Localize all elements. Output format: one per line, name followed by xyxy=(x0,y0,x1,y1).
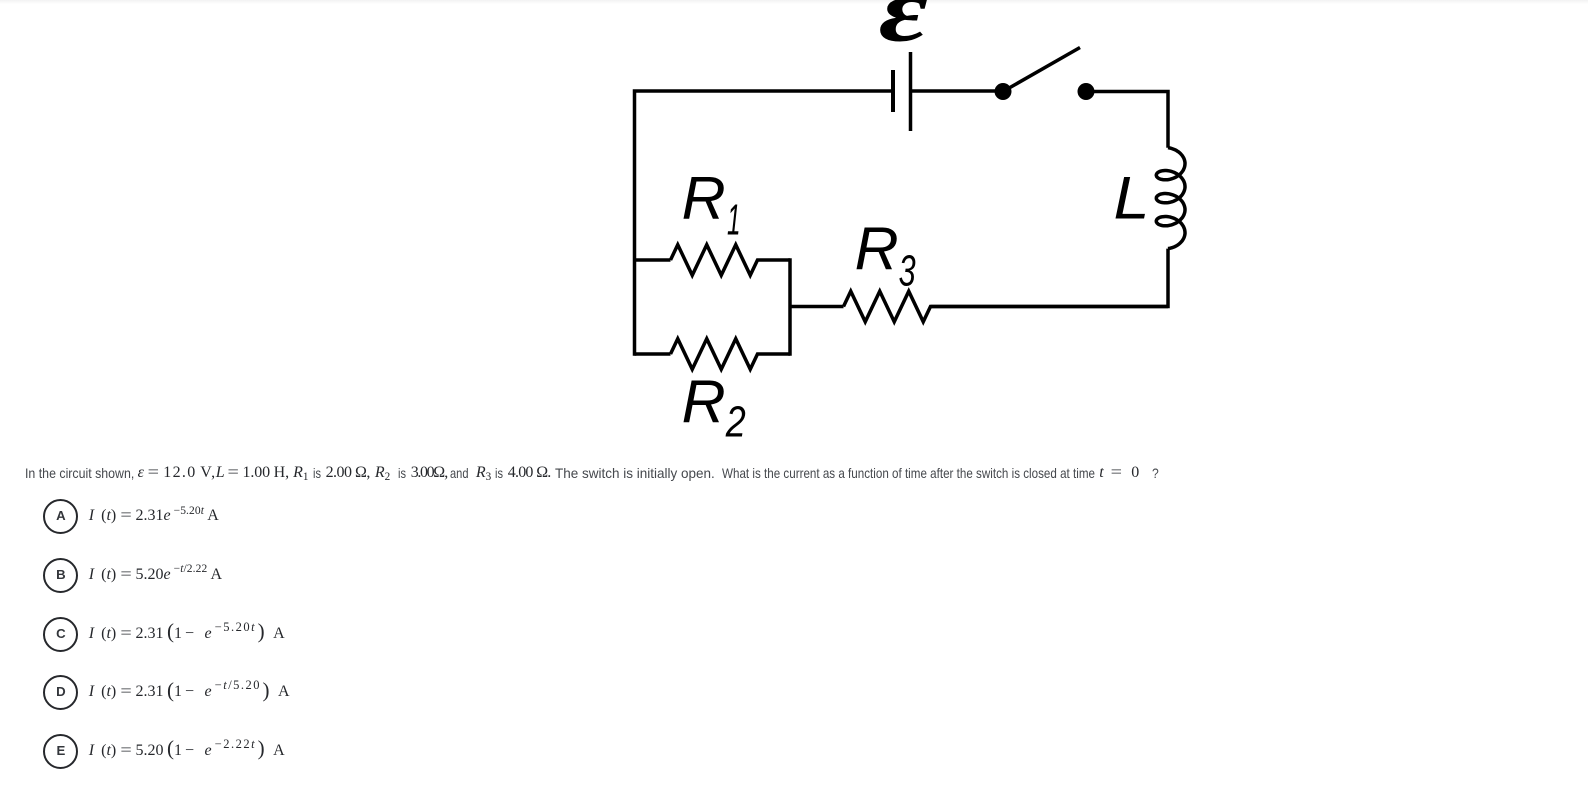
svg-text:1: 1 xyxy=(727,196,741,245)
svg-text:2: 2 xyxy=(725,398,746,447)
svg-text:L: L xyxy=(1114,164,1150,231)
svg-text:3: 3 xyxy=(899,246,916,295)
svg-text:R: R xyxy=(682,369,726,436)
svg-text:R: R xyxy=(682,165,726,232)
svg-text:ε: ε xyxy=(879,0,928,61)
svg-text:R: R xyxy=(855,216,899,283)
